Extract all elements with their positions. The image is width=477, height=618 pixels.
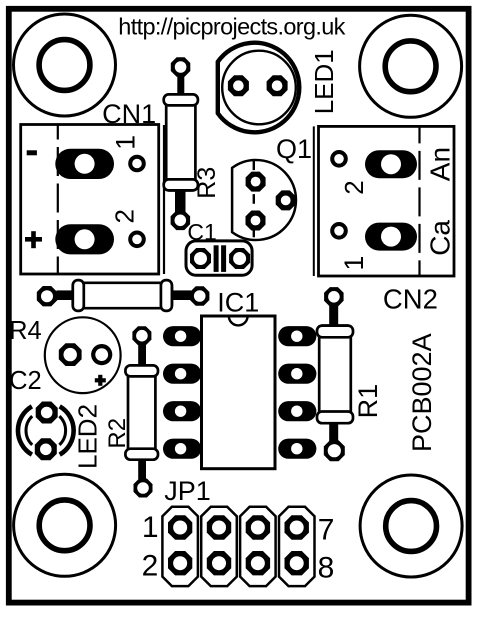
svg-text:CN2: CN2 [383,283,438,314]
svg-text:R1: R1 [353,384,383,419]
svg-text:C2: C2 [9,367,42,395]
svg-text:PCB002A: PCB002A [407,333,437,452]
svg-text:LED2: LED2 [73,404,103,469]
svg-text:7: 7 [318,514,335,547]
svg-text:R4: R4 [9,317,42,345]
svg-text:LED1: LED1 [309,49,339,114]
svg-text:1: 1 [339,256,369,271]
svg-text:JP1: JP1 [164,476,211,506]
svg-text:8: 8 [318,552,335,585]
svg-text:R2: R2 [104,418,131,449]
svg-text:CN1: CN1 [102,99,156,129]
svg-text:An: An [424,147,455,181]
svg-text:1: 1 [110,135,140,150]
svg-text:2: 2 [339,180,369,194]
svg-text:Q1: Q1 [276,134,312,164]
svg-text:IC1: IC1 [217,288,259,318]
svg-text:Ca: Ca [424,220,455,256]
svg-text:2: 2 [142,550,159,583]
svg-text:1: 1 [142,511,159,544]
svg-text:http://picprojects.org.uk: http://picprojects.org.uk [118,14,345,40]
svg-text:C1: C1 [187,219,216,245]
svg-text:2: 2 [110,209,140,223]
svg-text:R3: R3 [193,167,221,199]
